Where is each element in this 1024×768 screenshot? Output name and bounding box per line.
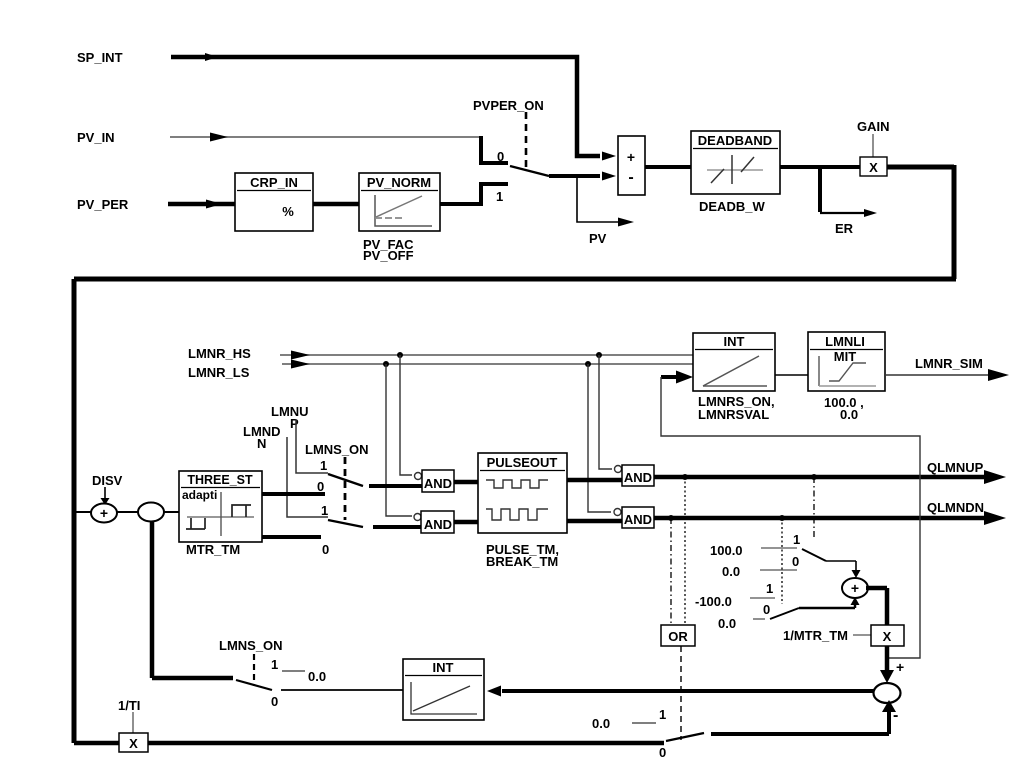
stub from feedback line to DISV summer xyxy=(76,511,91,513)
junction dot LS to AND4 xyxy=(585,361,591,367)
wire lower speed switch to summer xyxy=(799,603,855,608)
wire PV_IN xyxy=(170,136,481,138)
wire bottom switch to main summer minus xyxy=(711,712,889,734)
wire PV_NORM out to contact 1 xyxy=(440,184,508,206)
wire PV_PER xyxy=(168,202,235,207)
dotted line QLMNUP to OR xyxy=(684,477,686,625)
arrowhead ER xyxy=(864,209,877,217)
wire switch to summer minus xyxy=(549,174,600,178)
wire PULSEOUT to AND4 xyxy=(567,519,622,524)
wire AND2 to PULSEOUT xyxy=(454,520,478,525)
summer circle main xyxy=(874,683,901,703)
dashed control line LMNS_ON xyxy=(344,457,347,520)
svg-text:PV_OFF: PV_OFF xyxy=(363,248,414,263)
arrowhead LMNR_SIM xyxy=(988,369,1009,381)
junction dot HS to AND3 xyxy=(596,352,602,358)
svg-text:0: 0 xyxy=(317,479,324,494)
switch arm speed lower xyxy=(770,608,799,619)
arrowhead into INT lower xyxy=(487,686,501,697)
svg-text:AND: AND xyxy=(624,470,652,485)
svg-text:+: + xyxy=(851,580,859,596)
OR gate xyxy=(661,625,695,646)
arrowhead SP_INT mid xyxy=(205,53,218,61)
junction dot QLMNUP to OR xyxy=(682,474,688,480)
svg-text:INT: INT xyxy=(433,660,454,675)
wire DEADBAND to GAIN xyxy=(780,165,860,169)
wire LMNDN to contact 1 lower xyxy=(287,437,328,517)
block PV_NORM xyxy=(359,173,440,231)
block INT lower xyxy=(403,659,484,720)
arrowhead into summer minus xyxy=(602,172,616,181)
AND gate A3 xyxy=(615,465,655,486)
summer circle DISV plus xyxy=(91,504,117,523)
wire LMNR_LS xyxy=(282,363,693,365)
wire INT input arrow thick xyxy=(661,375,678,379)
multiplier X MTR xyxy=(871,625,904,646)
svg-text:X: X xyxy=(883,629,892,644)
dashed control line LMNS_ON bottom xyxy=(253,654,255,686)
svg-text:1: 1 xyxy=(766,581,773,596)
AND gate A1 xyxy=(415,470,455,492)
arrowhead into main summer minus xyxy=(882,700,896,712)
svg-text:P: P xyxy=(290,416,299,431)
svg-text:LMNS_ON: LMNS_ON xyxy=(305,442,369,457)
svg-text:1: 1 xyxy=(321,503,328,518)
contact line 0.0 bottom right xyxy=(632,722,656,724)
switch arm bottom right xyxy=(666,733,704,741)
svg-text:BREAK_TM: BREAK_TM xyxy=(486,554,558,569)
switch arm upper LMNS xyxy=(328,474,363,486)
AND gate A2 xyxy=(414,511,454,533)
svg-text:100.0: 100.0 xyxy=(710,543,743,558)
contact line 0.0 lower xyxy=(753,618,765,620)
wire speed summer to X MTR xyxy=(866,588,887,625)
wire junction to THREE_ST xyxy=(164,511,179,513)
junction dot QLMNDN to switch xyxy=(779,515,785,521)
wire X MTR down to main summer xyxy=(885,646,890,672)
svg-text:0.0: 0.0 xyxy=(308,669,326,684)
arrowhead PV xyxy=(618,218,634,227)
wire upper switch to AND1 xyxy=(369,484,422,488)
svg-text:0.0: 0.0 xyxy=(718,616,736,631)
arrowhead SP_INT into summer xyxy=(602,152,616,161)
dashed line OR to bottom switch xyxy=(680,646,682,740)
svg-text:QLMNUP: QLMNUP xyxy=(927,460,984,475)
svg-text:AND: AND xyxy=(624,512,652,527)
switch arm PVPER_ON xyxy=(510,166,549,176)
wire left feedback into X TI xyxy=(74,741,119,746)
svg-text:AND: AND xyxy=(424,476,452,491)
arrowhead LMNR_LS xyxy=(291,360,310,369)
arrowhead into main summer plus xyxy=(880,670,894,683)
switch arm lower LMNS xyxy=(328,520,363,527)
wire AND1 to PULSEOUT xyxy=(454,480,478,485)
junction dot QLMNDN to OR xyxy=(668,515,674,521)
arrowhead INT input xyxy=(676,371,693,384)
svg-text:SP_INT: SP_INT xyxy=(77,50,123,65)
svg-text:LMNR_SIM: LMNR_SIM xyxy=(915,356,983,371)
wire HS down to AND3 ncircle xyxy=(599,355,612,469)
wire ER branch xyxy=(818,165,822,212)
wire THREE_ST upper out to contact 0 xyxy=(262,492,325,496)
arrowhead PV_IN xyxy=(210,133,228,142)
wire LS down to AND2 ncircle xyxy=(386,364,412,516)
svg-text:MTR_TM: MTR_TM xyxy=(186,542,240,557)
svg-text:DEADB_W: DEADB_W xyxy=(699,199,765,214)
wire SP_INT xyxy=(171,57,600,156)
svg-text:PV_IN: PV_IN xyxy=(77,130,115,145)
dotted line QLMNDN to lower speed switch xyxy=(781,518,783,604)
svg-text:0: 0 xyxy=(792,554,799,569)
svg-text:ER: ER xyxy=(835,221,854,236)
wire switch to INT lower xyxy=(281,689,403,691)
switch arm bottom LMNS xyxy=(236,680,272,690)
multiplier X TI xyxy=(119,733,148,752)
svg-text:1: 1 xyxy=(793,532,800,547)
svg-text:LMNRSVAL: LMNRSVAL xyxy=(698,407,769,422)
svg-text:0: 0 xyxy=(659,745,666,760)
arrowhead LMNR_HS xyxy=(291,351,310,360)
block THREE_ST xyxy=(179,471,262,542)
wire PULSEOUT to AND3 xyxy=(567,478,622,483)
svg-text:DEADBAND: DEADBAND xyxy=(698,133,772,148)
summer circle speed plus xyxy=(842,578,868,598)
wire upper speed switch to summer xyxy=(826,561,856,570)
label LMNUP wrapped xyxy=(271,404,309,431)
svg-text:-100.0: -100.0 xyxy=(695,594,732,609)
wire HS down to AND1 ncircle xyxy=(400,355,412,475)
lead 1/MTR_TM to multiplier xyxy=(853,634,871,636)
wire QLMNDN xyxy=(654,516,990,521)
svg-text:QLMNDN: QLMNDN xyxy=(927,500,984,515)
svg-text:PV_PER: PV_PER xyxy=(77,197,129,212)
wire GAIN out to right and down and long feedback to left xyxy=(74,165,956,743)
junction dot HS to AND1 xyxy=(397,352,403,358)
wire LMNUP to contact 1 upper xyxy=(296,420,328,473)
wire lower switch to AND2 xyxy=(373,525,421,529)
svg-text:-: - xyxy=(628,169,633,186)
svg-text:0: 0 xyxy=(271,694,278,709)
block INT upper xyxy=(693,333,775,391)
wire summer to DEADBAND xyxy=(645,165,691,169)
wire INT to LMNLIMIT xyxy=(775,374,808,376)
lead 1/TI to multiplier xyxy=(132,712,134,733)
svg-text:0.0: 0.0 xyxy=(840,407,858,422)
svg-text:THREE_ST: THREE_ST xyxy=(187,473,253,487)
wire summer to junction ellipse xyxy=(117,511,138,513)
arrowhead into speed summer bottom xyxy=(851,597,860,605)
wire LS down to AND4 ncircle xyxy=(588,364,611,512)
wire main summer to INT lower xyxy=(502,689,874,693)
contact line -100.0 xyxy=(750,597,775,599)
junction ellipse xyxy=(138,503,164,522)
label LMNDN wrapped xyxy=(243,424,281,451)
svg-text:adapti: adapti xyxy=(182,488,217,502)
wire THREE_ST lower out to contact 0 xyxy=(262,535,321,539)
junction dot LS to AND2 xyxy=(383,361,389,367)
wire PV branch xyxy=(577,176,622,222)
svg-text:0.0: 0.0 xyxy=(722,564,740,579)
svg-text:LMNS_ON: LMNS_ON xyxy=(219,638,283,653)
svg-text:LMNLI: LMNLI xyxy=(825,334,865,349)
svg-text:1: 1 xyxy=(271,657,278,672)
dashed control line PVPER_ON xyxy=(525,112,528,170)
wire CRP_IN to PV_NORM xyxy=(313,202,359,207)
svg-text:OR: OR xyxy=(668,629,688,644)
arrowhead QLMNUP xyxy=(984,470,1006,484)
contact line 0.0 bottom LMNS xyxy=(282,670,305,672)
svg-text:INT: INT xyxy=(724,334,745,349)
block DEADBAND xyxy=(691,131,780,194)
svg-text:1: 1 xyxy=(320,458,327,473)
dashdot line QLMNUP to upper speed switch xyxy=(813,477,815,537)
junction dot QLMNUP to switch xyxy=(811,474,817,480)
arrowhead PV_PER xyxy=(206,200,222,209)
svg-text:+: + xyxy=(100,505,108,521)
svg-text:PVPER_ON: PVPER_ON xyxy=(473,98,544,113)
svg-text:CRP_IN: CRP_IN xyxy=(250,175,298,190)
svg-text:X: X xyxy=(869,160,878,175)
block LMNLIMIT xyxy=(808,332,885,391)
block CRP_IN xyxy=(235,173,313,231)
svg-text:0: 0 xyxy=(763,602,770,617)
contact line 0.0 upper xyxy=(760,569,797,571)
svg-text:0.0: 0.0 xyxy=(592,716,610,731)
svg-text:%: % xyxy=(282,204,294,219)
svg-text:0: 0 xyxy=(322,542,329,557)
arrowhead QLMNDN xyxy=(984,511,1006,525)
svg-text:AND: AND xyxy=(424,517,452,532)
wire junction down to bottom feedback xyxy=(150,521,155,678)
lead GAIN to multiplier xyxy=(872,134,874,157)
svg-text:1: 1 xyxy=(659,707,666,722)
wire X TI to bottom switch xyxy=(148,741,664,746)
block PULSEOUT xyxy=(478,453,567,533)
svg-text:MIT: MIT xyxy=(834,349,856,364)
svg-text:0: 0 xyxy=(497,149,504,164)
feedback wire X output to INT input xyxy=(661,377,920,658)
summer block plus minus xyxy=(618,136,645,195)
multiplier GAIN X xyxy=(860,157,887,176)
svg-text:+: + xyxy=(627,149,635,165)
dashdot line QLMNDN to OR xyxy=(670,518,672,625)
switch arm speed upper xyxy=(802,549,826,561)
svg-text:N: N xyxy=(257,436,266,451)
wire QLMNUP xyxy=(654,475,990,480)
wire LMNR_HS xyxy=(280,354,693,356)
svg-text:PV_NORM: PV_NORM xyxy=(367,175,431,190)
svg-text:LMNR_LS: LMNR_LS xyxy=(188,365,250,380)
contact line 100.0 xyxy=(761,547,797,549)
arrowhead DISV xyxy=(101,498,110,505)
svg-text:1/TI: 1/TI xyxy=(118,698,140,713)
svg-text:1: 1 xyxy=(496,189,503,204)
svg-text:+: + xyxy=(896,659,904,675)
arrowhead into speed summer top xyxy=(852,570,861,578)
svg-text:X: X xyxy=(129,736,138,751)
svg-text:1/MTR_TM: 1/MTR_TM xyxy=(783,628,848,643)
svg-text:DISV: DISV xyxy=(92,473,123,488)
AND gate A4 xyxy=(614,507,654,528)
wire LMNR_SIM xyxy=(885,374,992,376)
wire bottom feedback to LMNS switch xyxy=(152,676,233,681)
svg-text:PULSEOUT: PULSEOUT xyxy=(487,455,558,470)
arrow DISV into summer xyxy=(104,487,106,498)
svg-text:GAIN: GAIN xyxy=(857,119,890,134)
svg-text:PV: PV xyxy=(589,231,607,246)
svg-text:LMNR_HS: LMNR_HS xyxy=(188,346,251,361)
wire PV_IN drop to contact 0 xyxy=(481,136,508,163)
